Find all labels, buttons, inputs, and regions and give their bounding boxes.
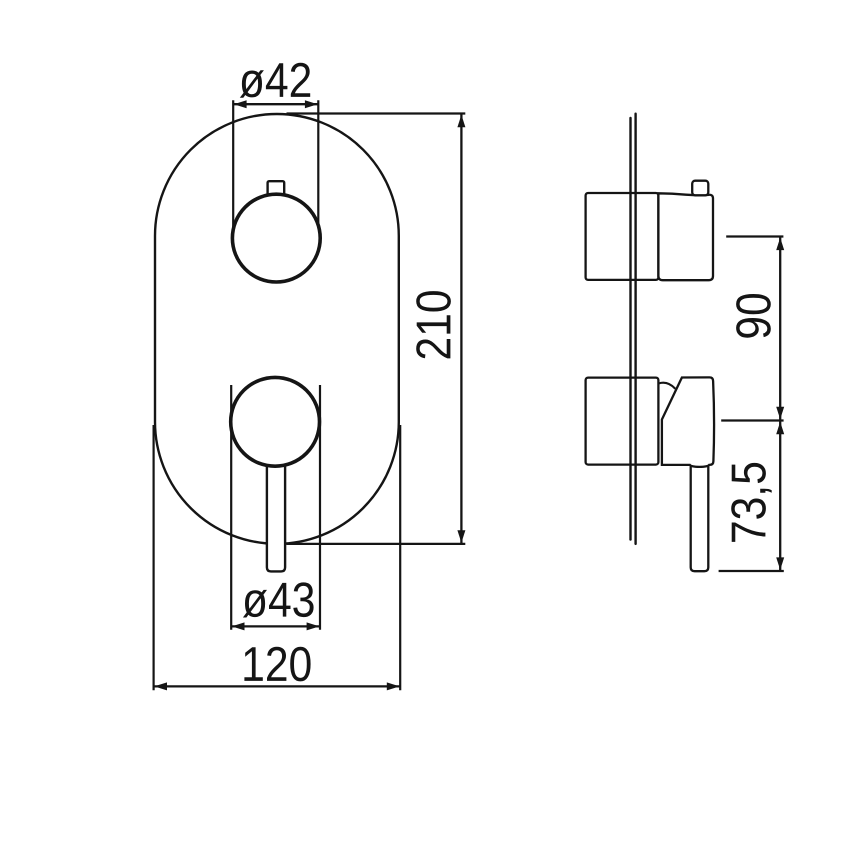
front lever handle bar bbox=[267, 440, 285, 571]
side view upper knob bbox=[658, 193, 713, 280]
extension line right for ø42 bbox=[317, 100, 319, 228]
label 90 (rotated) bbox=[736, 294, 771, 338]
extension line top for 90 bbox=[726, 235, 783, 237]
side view lever bar bbox=[691, 466, 709, 571]
extension line left for ø43 bbox=[230, 385, 232, 630]
extension line top for 210 bbox=[287, 112, 466, 114]
label 73,5 (rotated) bbox=[731, 463, 772, 542]
side view lever body bbox=[662, 377, 714, 467]
extension line left for 120 bbox=[153, 425, 155, 690]
front lower control circle bbox=[231, 377, 320, 466]
extension line right for ø43 bbox=[319, 385, 321, 630]
dimension line ø43 bbox=[231, 622, 320, 630]
extension line left for ø42 bbox=[232, 100, 234, 228]
label 120 bbox=[244, 647, 310, 682]
dimension line 120 bbox=[154, 682, 401, 690]
front escutcheon plate (stadium outline) bbox=[155, 114, 399, 544]
front upper control circle bbox=[232, 194, 320, 282]
side view knob button bbox=[692, 181, 708, 196]
front knob index tab bbox=[268, 181, 285, 196]
side view cartridge dome arc bbox=[659, 383, 676, 389]
wall plate right line bbox=[634, 114, 636, 544]
label ø42 bbox=[240, 63, 310, 98]
extension line middle for 90/73,5 bbox=[721, 419, 783, 421]
dimension line ø42 bbox=[233, 100, 318, 108]
label 210 (rotated) bbox=[416, 291, 451, 358]
side view lower body behind plate bbox=[586, 378, 659, 465]
wall plate left line bbox=[629, 118, 631, 540]
extension line bottom for 210 bbox=[287, 543, 466, 545]
dimension line 90 / 73,5 bbox=[776, 237, 784, 572]
extension line right for 120 bbox=[399, 425, 401, 690]
dimension line 210 bbox=[457, 114, 465, 544]
label ø43 bbox=[243, 582, 314, 617]
side view upper body behind plate bbox=[586, 193, 659, 280]
extension line bottom for 73,5 bbox=[719, 570, 784, 572]
